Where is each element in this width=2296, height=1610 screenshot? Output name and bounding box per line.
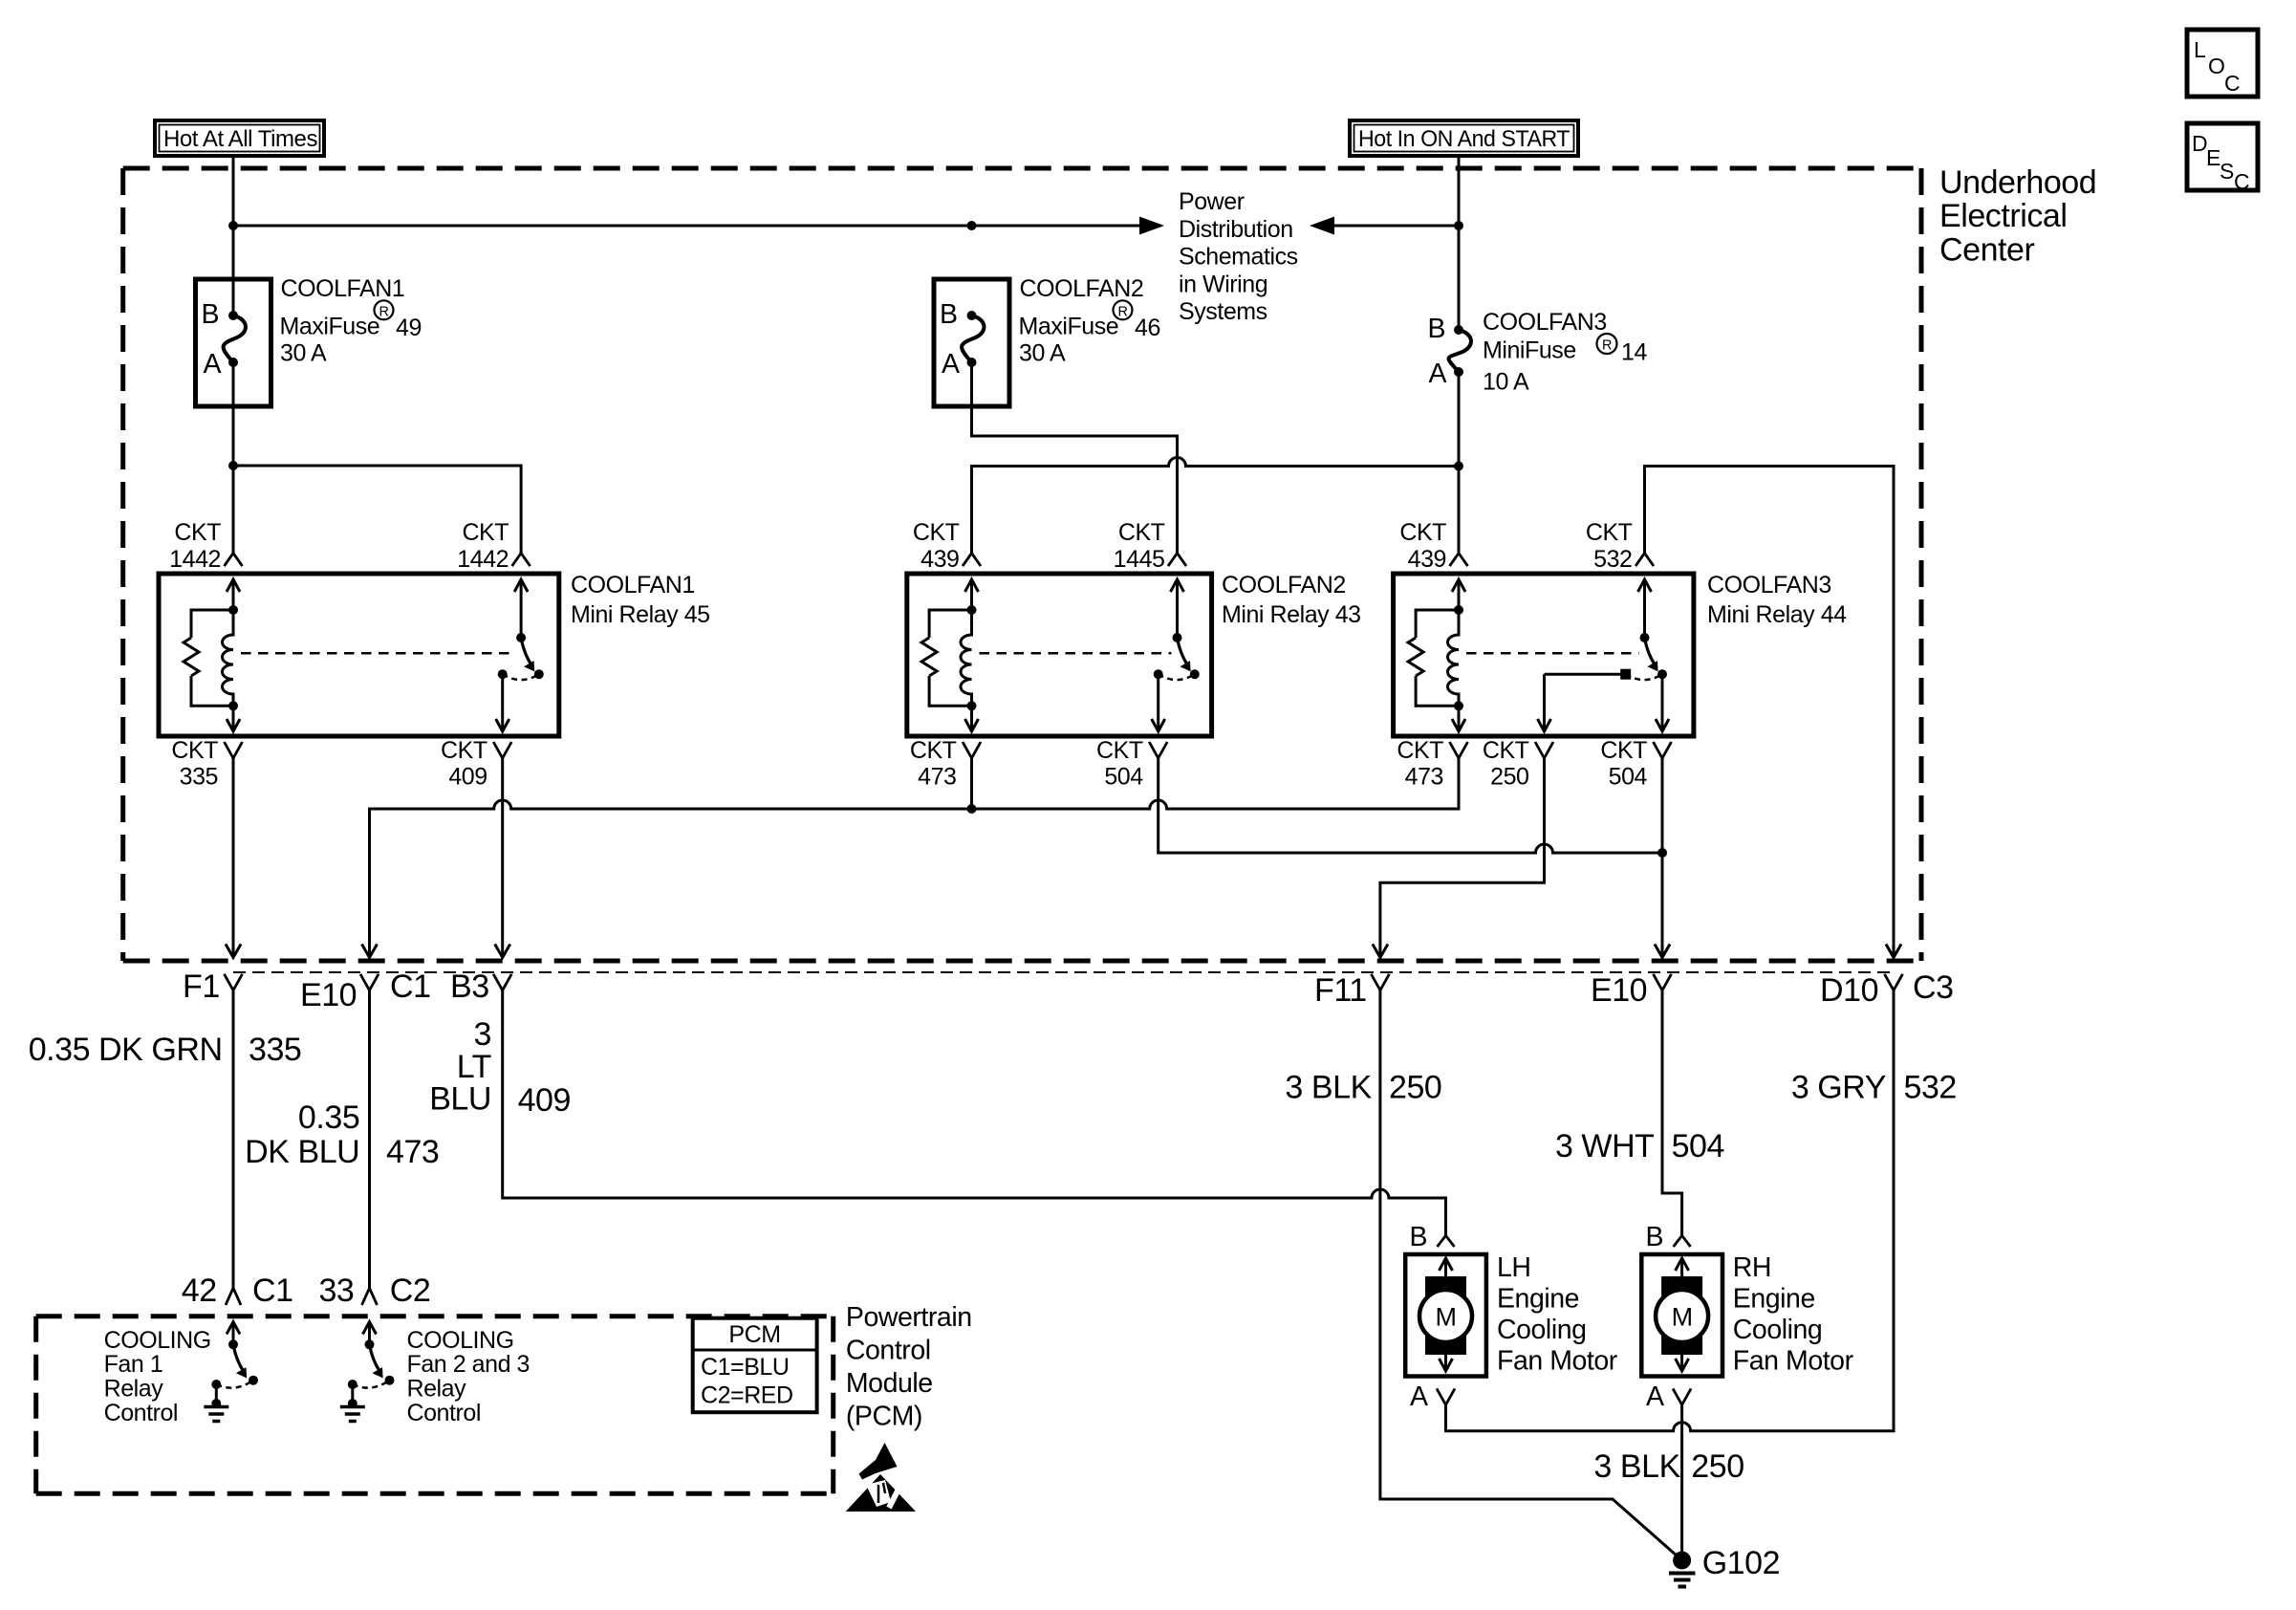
- svg-text:46: 46: [1135, 315, 1160, 341]
- relay COOLFAN3 Mini Relay 44 (box): [1394, 574, 1694, 736]
- label COOLING Fan 1 Relay Control: [104, 1327, 211, 1426]
- ESD sensitive device symbol: [846, 1443, 916, 1512]
- svg-text:504: 504: [1672, 1128, 1724, 1164]
- ground G102 symbol: [1669, 1552, 1696, 1587]
- svg-text:250: 250: [1490, 764, 1528, 791]
- value label COOLFAN2 MaxiFuse(R) 46 30 A: [1019, 275, 1160, 367]
- terminal chevron LH motor pin B: [1438, 1235, 1455, 1247]
- svg-text:Fan Motor: Fan Motor: [1497, 1346, 1618, 1377]
- svg-text:RH: RH: [1733, 1252, 1771, 1283]
- svg-text:R: R: [1602, 338, 1612, 354]
- terminal chevron relay top pin CKT 1445: [1168, 554, 1186, 567]
- wire CKT 1442 branch to relay 45 switch pin: [233, 466, 521, 554]
- svg-text:14: 14: [1621, 339, 1647, 366]
- svg-text:Hot In ON And START: Hot In ON And START: [1358, 126, 1570, 152]
- junction CKT 439: [1454, 462, 1463, 471]
- svg-text:D: D: [2192, 131, 2207, 156]
- relay 45 coil resistor and switch: [184, 579, 544, 731]
- svg-text:Powertrain: Powertrain: [846, 1302, 972, 1333]
- svg-text:Power: Power: [1179, 188, 1245, 215]
- label E10 (C1): [300, 977, 357, 1013]
- UEC dashed border (Underhood Electrical Center): [123, 168, 1921, 961]
- label 0.35 DK GRN 335: [29, 1032, 302, 1068]
- label 3 WHT 504: [1555, 1128, 1724, 1164]
- svg-text:Electrical: Electrical: [1939, 198, 2067, 234]
- svg-text:Relay: Relay: [104, 1376, 164, 1403]
- terminal chevron relay bottom pin CKT 504: [1654, 742, 1672, 758]
- svg-text:G102: G102: [1702, 1545, 1780, 1581]
- svg-text:R: R: [1117, 305, 1127, 320]
- PCM driver switch Cooling Fan 1 Relay Control (with ground): [204, 1322, 258, 1422]
- wire CKT 1442 from fuse 49 to relay 45: [232, 362, 235, 554]
- svg-text:3 BLK: 3 BLK: [1285, 1070, 1372, 1106]
- terminal chevron relay bottom pin CKT 409: [493, 742, 511, 758]
- PCM dashed border (Powertrain Control Module): [36, 1316, 834, 1494]
- wire from fuse 46 to relay 43 pin CKT 1445: [972, 362, 1178, 554]
- terminal chevron relay top pin CKT 439: [1450, 554, 1468, 567]
- svg-text:B: B: [940, 299, 958, 330]
- svg-text:Mini Relay 44: Mini Relay 44: [1707, 601, 1847, 628]
- label CKT 504 (bottom): [1096, 737, 1143, 791]
- node Hot At All Times (box): [155, 120, 324, 156]
- label Power Distribution Schematics in Wiring Systems: [1179, 188, 1298, 325]
- value label COOLFAN3 MiniFuse(R) 14 10 A: [1483, 309, 1647, 396]
- svg-text:COOLFAN2: COOLFAN2: [1222, 572, 1346, 598]
- svg-text:CKT: CKT: [171, 737, 218, 764]
- svg-text:COOLING: COOLING: [407, 1327, 514, 1354]
- terminal chevron RH motor pin B: [1674, 1235, 1691, 1247]
- svg-text:B3: B3: [450, 968, 489, 1005]
- label Powertrain Control Module (PCM): [846, 1302, 972, 1432]
- relay COOLFAN1 Mini Relay 45 (box): [159, 574, 559, 736]
- label CKT 504 (bottom): [1600, 737, 1647, 791]
- pin A label (fuse 14): [1428, 359, 1446, 389]
- svg-text:49: 49: [396, 315, 422, 341]
- junction arrow into UEC connector at x=244: [226, 945, 241, 958]
- svg-text:D10: D10: [1820, 972, 1878, 1009]
- svg-text:S: S: [2220, 159, 2234, 184]
- svg-text:10 A: 10 A: [1483, 369, 1529, 396]
- svg-text:Control: Control: [846, 1336, 931, 1366]
- svg-text:CKT: CKT: [1096, 737, 1143, 764]
- pin 33 C2 label: [318, 1273, 430, 1309]
- svg-text:LT: LT: [457, 1049, 491, 1085]
- terminal chevron UEC connector at x=1981: [1885, 974, 1903, 990]
- terminal chevron relay bottom pin CKT 504: [1149, 742, 1167, 758]
- label B3: [450, 968, 489, 1005]
- svg-text:L: L: [2194, 37, 2206, 62]
- terminal chevron UEC connector at x=244: [225, 974, 243, 990]
- label 3 GRY 532: [1791, 1070, 1957, 1106]
- label F1: [183, 968, 220, 1005]
- fuse COOLFAN2 MaxiFuse 46 30A: [934, 279, 1009, 406]
- pin A label (RH motor): [1646, 1382, 1664, 1412]
- svg-text:409: 409: [448, 764, 487, 791]
- svg-text:C1: C1: [390, 968, 431, 1005]
- terminal chevron PCM pin 33: [362, 1288, 378, 1305]
- svg-text:C1=BLU: C1=BLU: [701, 1354, 790, 1381]
- svg-text:E10: E10: [1591, 972, 1647, 1009]
- svg-text:473: 473: [918, 764, 956, 791]
- svg-text:Relay: Relay: [407, 1376, 467, 1403]
- UEC connector row thin dashed line (C1/C3): [233, 971, 1894, 973]
- PCM connector legend box: [693, 1318, 817, 1413]
- relay COOLFAN2 Mini Relay 43 (box): [907, 574, 1212, 736]
- svg-text:COOLFAN2: COOLFAN2: [1020, 275, 1144, 302]
- label COOLFAN1 Mini Relay 45: [571, 572, 710, 628]
- wire battery feed down from Hot At All Times: [232, 156, 235, 315]
- svg-text:C: C: [2234, 169, 2249, 194]
- terminal chevron relay top pin CKT 439: [963, 554, 981, 567]
- terminal chevron UEC connector at x=525.7: [493, 974, 511, 990]
- svg-text:E10: E10: [300, 977, 357, 1013]
- junction CKT 504: [1657, 848, 1667, 858]
- wire battery bus to Power Distribution arrow: [233, 217, 1164, 235]
- junction arrow into UEC connector at x=1443.9: [1373, 945, 1388, 958]
- svg-text:Systems: Systems: [1179, 298, 1267, 325]
- relay 44 coil resistor and switch: [1408, 579, 1669, 731]
- terminal chevron relay top pin CKT 1442: [512, 554, 531, 567]
- svg-text:3: 3: [474, 1016, 491, 1053]
- svg-text:CKT: CKT: [1397, 737, 1443, 764]
- svg-text:Underhood: Underhood: [1939, 164, 2096, 201]
- svg-text:1442: 1442: [169, 546, 221, 573]
- svg-text:Mini Relay 45: Mini Relay 45: [571, 601, 710, 628]
- svg-text:Schematics: Schematics: [1179, 244, 1298, 271]
- svg-text:MiniFuse: MiniFuse: [1483, 337, 1576, 364]
- svg-text:CKT: CKT: [1586, 519, 1633, 546]
- svg-text:0.35 DK GRN: 0.35 DK GRN: [29, 1032, 223, 1068]
- svg-text:Engine: Engine: [1497, 1284, 1579, 1315]
- wire CKT 504 relay 43 to junction (hops over CKT 250 column): [1159, 758, 1662, 853]
- svg-text:Cooling: Cooling: [1733, 1315, 1823, 1345]
- svg-text:1442: 1442: [457, 546, 509, 573]
- label COOLFAN3 Mini Relay 44: [1707, 572, 1847, 628]
- svg-text:532: 532: [1904, 1070, 1957, 1106]
- pin B label (fuse 14): [1427, 314, 1445, 344]
- label Underhood Electrical Center: [1939, 164, 2096, 269]
- svg-text:Hot At All Times: Hot At All Times: [163, 126, 317, 152]
- wire CKT 439 across to relay 43 (hop over 1445): [972, 458, 1460, 554]
- svg-text:Distribution: Distribution: [1179, 216, 1293, 243]
- svg-text:COOLING: COOLING: [104, 1327, 211, 1354]
- label CKT 439 (top): [1399, 519, 1446, 573]
- svg-text:473: 473: [386, 1134, 439, 1170]
- svg-text:in Wiring: in Wiring: [1179, 272, 1267, 298]
- svg-text:(PCM): (PCM): [846, 1402, 922, 1432]
- label LH Engine Cooling Fan Motor: [1497, 1252, 1618, 1377]
- junction bus at COOLFAN2 fuse: [967, 221, 977, 230]
- svg-text:409: 409: [518, 1082, 571, 1119]
- wire CKT 473 bus (hop over 409 and 504 columns): [370, 758, 1460, 958]
- svg-text:Cooling: Cooling: [1497, 1315, 1587, 1345]
- svg-text:CKT: CKT: [910, 737, 957, 764]
- label CKT 1442 (top): [169, 519, 221, 573]
- motor LH Engine Cooling Fan Motor: [1405, 1254, 1486, 1377]
- pin A label (LH motor): [1410, 1382, 1428, 1412]
- svg-text:1445: 1445: [1114, 546, 1165, 573]
- fuse COOLFAN1 MaxiFuse 49 30A: [196, 279, 271, 406]
- label CKT 532 (top): [1586, 519, 1633, 573]
- terminal chevron UEC connector at x=1443.9: [1371, 974, 1389, 990]
- svg-text:504: 504: [1609, 764, 1648, 791]
- svg-text:Fan Motor: Fan Motor: [1733, 1346, 1854, 1377]
- label F11: [1314, 972, 1367, 1009]
- junction arrow into UEC connector at x=1739: [1655, 945, 1670, 958]
- svg-text:439: 439: [1408, 546, 1446, 573]
- pin A label (fuse 49): [203, 349, 221, 380]
- label 3 BLK 250 (F11): [1285, 1070, 1441, 1106]
- terminal chevron relay top pin CKT 1442: [225, 554, 243, 567]
- terminal chevron LH motor pin A: [1437, 1388, 1455, 1404]
- svg-text:COOLFAN3: COOLFAN3: [1707, 572, 1831, 598]
- svg-text:Fan 2 and 3: Fan 2 and 3: [407, 1351, 531, 1378]
- svg-text:PCM: PCM: [728, 1321, 780, 1348]
- wire CKT 439 from fuse 14 down to relay 44: [1458, 372, 1461, 554]
- wire CKT 504 relay 44 to connector E10: [1661, 758, 1664, 958]
- svg-text:COOLFAN1: COOLFAN1: [281, 275, 405, 302]
- svg-text:R: R: [379, 305, 388, 320]
- label 0.35 DK BLU 473: [245, 1099, 439, 1170]
- label RH Engine Cooling Fan Motor: [1733, 1252, 1854, 1377]
- label COOLING Fan 2 and 3 Relay Control: [407, 1327, 531, 1426]
- junction arrow into UEC connector at x=525.7: [495, 945, 510, 958]
- svg-text:A: A: [203, 349, 221, 380]
- svg-text:250: 250: [1691, 1448, 1744, 1485]
- svg-text:B: B: [1645, 1222, 1663, 1252]
- svg-text:DK BLU: DK BLU: [245, 1134, 359, 1170]
- wire 3 GRY 532 from D10 to LH fan motor A (hop over RH motor ground wire): [1446, 990, 1895, 1431]
- svg-text:504: 504: [1104, 764, 1143, 791]
- svg-text:42: 42: [182, 1273, 217, 1309]
- svg-text:3 GRY: 3 GRY: [1791, 1070, 1886, 1106]
- svg-text:C2=RED: C2=RED: [701, 1382, 793, 1409]
- svg-text:3 BLK: 3 BLK: [1593, 1448, 1680, 1485]
- wire CKT 250 relay 44 to connector F11: [1380, 758, 1545, 958]
- node Hot In ON And START (box): [1350, 120, 1578, 156]
- svg-text:532: 532: [1593, 546, 1632, 573]
- wire 3 LT BLU 409 to LH fan motor B (hop over 250): [503, 990, 1446, 1236]
- wire CKT 409 relay 45 to connector B3: [501, 758, 504, 958]
- svg-text:CKT: CKT: [174, 519, 221, 546]
- wire ignition feed to Power Distribution arrow: [1310, 217, 1459, 235]
- wire 3 BLK 250 from F11 to ground splice: [1380, 990, 1682, 1560]
- svg-text:A: A: [1428, 359, 1446, 389]
- svg-text:30 A: 30 A: [280, 340, 327, 367]
- fuse COOLFAN3 MiniFuse 14 10A: [1449, 325, 1471, 377]
- label E10 (C3): [1591, 972, 1647, 1009]
- label CKT 1445 (top): [1114, 519, 1165, 573]
- svg-text:B: B: [201, 299, 219, 330]
- svg-text:C: C: [2224, 71, 2240, 96]
- svg-text:CKT: CKT: [1600, 737, 1647, 764]
- label CKT 250 (bottom): [1483, 737, 1529, 791]
- svg-text:C1: C1: [252, 1273, 293, 1309]
- svg-text:O: O: [2208, 54, 2224, 78]
- svg-text:LH: LH: [1497, 1252, 1531, 1283]
- label CKT 335 (bottom): [171, 737, 218, 791]
- LOC reference box: [2187, 30, 2258, 97]
- svg-text:B: B: [1427, 314, 1445, 344]
- relay 43 coil resistor and switch: [921, 579, 1200, 731]
- svg-text:335: 335: [249, 1032, 301, 1068]
- svg-text:B: B: [1409, 1222, 1427, 1252]
- svg-text:A: A: [1410, 1382, 1428, 1412]
- svg-text:C3: C3: [1913, 969, 1954, 1006]
- terminal chevron UEC connector at x=1739: [1654, 974, 1672, 990]
- pin A label (fuse 46): [942, 349, 960, 380]
- svg-text:Fan 1: Fan 1: [104, 1351, 163, 1378]
- svg-text:Control: Control: [407, 1400, 481, 1426]
- svg-text:COOLFAN1: COOLFAN1: [571, 572, 695, 598]
- label 3 LT BLU 409: [429, 1016, 571, 1119]
- svg-text:M: M: [1672, 1303, 1693, 1332]
- svg-text:250: 250: [1389, 1070, 1441, 1106]
- label COOLFAN2 Mini Relay 43: [1222, 572, 1361, 628]
- wire RH motor A to ground G102: [1680, 1404, 1683, 1560]
- wire CKT 532 from relay 44 up and over to connector D10 column: [1645, 467, 1895, 958]
- label CKT 409 (bottom): [441, 737, 487, 791]
- svg-text:CKT: CKT: [462, 519, 509, 546]
- svg-text:COOLFAN3: COOLFAN3: [1483, 309, 1607, 336]
- junction ignition feed: [1454, 221, 1463, 230]
- svg-text:CKT: CKT: [913, 519, 960, 546]
- junction CKT 473 at relay 43: [967, 804, 977, 814]
- wire ignition feed down from Hot In ON And START: [1458, 156, 1461, 330]
- svg-text:473: 473: [1405, 764, 1443, 791]
- terminal chevron relay top pin CKT 532: [1635, 554, 1654, 567]
- svg-text:F1: F1: [183, 968, 220, 1005]
- wire CKT 335 relay 45 to connector F1: [232, 758, 235, 958]
- pin B label (LH motor): [1409, 1222, 1427, 1252]
- value label COOLFAN1 MaxiFuse(R) 49 30 A: [280, 275, 422, 367]
- pin B label (RH motor): [1645, 1222, 1663, 1252]
- label C1: [390, 968, 431, 1005]
- label CKT 473 (bottom): [910, 737, 957, 791]
- svg-text:C2: C2: [390, 1273, 431, 1309]
- svg-text:M: M: [1435, 1303, 1456, 1332]
- motor RH Engine Cooling Fan Motor: [1641, 1254, 1722, 1377]
- svg-text:Mini Relay 43: Mini Relay 43: [1222, 601, 1361, 628]
- PCM driver switch Cooling Fan 2 and 3 Relay Control (with ground): [340, 1322, 395, 1422]
- svg-text:Center: Center: [1939, 232, 2034, 269]
- wire 0.35 DK GRN 335 to PCM pin 42: [232, 990, 235, 1289]
- label CKT 473 (bottom): [1397, 737, 1443, 791]
- junction arrow into UEC connector at x=1981: [1886, 945, 1901, 958]
- label C3: [1913, 969, 1954, 1006]
- label 3 BLK 250 (ground wire): [1593, 1448, 1744, 1485]
- svg-text:A: A: [942, 349, 960, 380]
- DESC reference box: [2187, 123, 2258, 194]
- terminal chevron relay bottom pin CKT 335: [225, 742, 243, 758]
- svg-text:E: E: [2206, 145, 2220, 170]
- svg-text:CKT: CKT: [1118, 519, 1165, 546]
- junction battery bus: [228, 221, 238, 230]
- svg-text:CKT: CKT: [441, 737, 487, 764]
- terminal chevron relay bottom pin CKT 473: [963, 742, 981, 758]
- svg-text:439: 439: [921, 546, 959, 573]
- terminal chevron PCM pin 42: [226, 1288, 241, 1305]
- svg-text:CKT: CKT: [1483, 737, 1529, 764]
- wire 3 WHT 504 from E10 to RH fan motor B: [1662, 990, 1682, 1236]
- svg-text:BLU: BLU: [429, 1081, 491, 1118]
- label CKT 1442 (top): [457, 519, 509, 573]
- terminal chevron relay bottom pin CKT 473: [1450, 742, 1468, 758]
- junction arrow into UEC connector at x=386.5: [362, 945, 378, 958]
- svg-text:33: 33: [318, 1273, 354, 1309]
- junction CKT 1442 branch: [228, 461, 238, 470]
- svg-text:Engine: Engine: [1733, 1284, 1815, 1315]
- label CKT 439 (top): [913, 519, 960, 573]
- svg-text:MaxiFuse: MaxiFuse: [1019, 314, 1119, 340]
- svg-text:30 A: 30 A: [1019, 340, 1066, 367]
- svg-text:F11: F11: [1314, 972, 1367, 1009]
- pin B label (fuse 49): [201, 299, 219, 330]
- terminal chevron RH motor pin A: [1673, 1388, 1691, 1404]
- label D10: [1820, 972, 1878, 1009]
- pin 42 C1 label: [182, 1273, 293, 1309]
- svg-text:0.35: 0.35: [298, 1099, 359, 1136]
- pin B label (fuse 46): [940, 299, 958, 330]
- terminal chevron UEC connector at x=386.5: [360, 974, 379, 990]
- svg-text:CKT: CKT: [1399, 519, 1446, 546]
- wire 0.35 DK BLU 473 to PCM pin 33: [368, 990, 371, 1289]
- svg-text:Control: Control: [104, 1400, 178, 1426]
- wire CKT 473 relay 43 pin down: [970, 758, 973, 809]
- svg-text:335: 335: [180, 764, 218, 791]
- svg-text:A: A: [1646, 1382, 1664, 1412]
- svg-text:MaxiFuse: MaxiFuse: [280, 314, 380, 340]
- terminal chevron relay bottom pin CKT 250: [1535, 742, 1553, 758]
- svg-text:3 WHT: 3 WHT: [1555, 1128, 1655, 1164]
- label G102: [1702, 1545, 1780, 1581]
- svg-text:Module: Module: [846, 1368, 933, 1399]
